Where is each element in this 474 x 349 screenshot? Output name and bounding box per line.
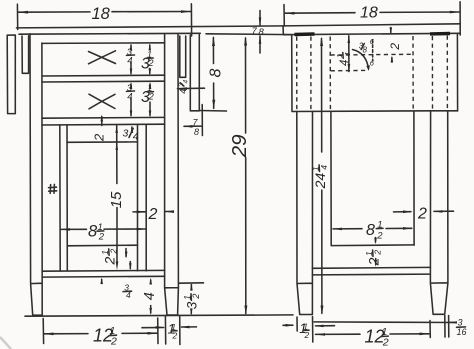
dim 8 right side: [212, 37, 214, 108]
drawer 1 X mark: [89, 51, 116, 64]
svg-text:2: 2: [191, 294, 201, 300]
right leg: [165, 34, 179, 315]
right edge extension up: [459, 2, 461, 35]
short dashed vertical in detail: [372, 40, 374, 61]
svg-text:4: 4: [339, 60, 351, 66]
svg-text:4: 4: [319, 165, 329, 170]
left leaf support bar: [22, 36, 29, 74]
drawer row2 dim 3/4: [130, 84, 132, 116]
dim line + outward arrows: [44, 332, 157, 335]
dim 18 top left: extension lines: [17, 4, 191, 36]
dim 29 overall height: [245, 38, 247, 314]
svg-text:2: 2: [365, 257, 381, 266]
leader arc: [353, 50, 369, 70]
floor extension line left: [25, 315, 293, 316]
drawer row1 dim 3/4: [130, 45, 132, 74]
right leg below case: [430, 111, 448, 314]
grain hash mark on left stile: [49, 184, 57, 193]
dim 24 1/4 (rotated): [321, 39, 323, 314]
bottom band: [312, 267, 430, 275]
floor extension line right: [314, 321, 456, 324]
dim 7/8 tabletop thickness: [259, 11, 261, 54]
svg-text:3: 3: [123, 128, 129, 140]
svg-text:16: 16: [457, 327, 467, 337]
svg-text:2: 2: [382, 337, 389, 349]
drawer row2 dim 3 1/2: [149, 84, 151, 116]
svg-text:24: 24: [312, 173, 328, 190]
door top rail bottom: [67, 141, 138, 143]
dim 3/4 of band under drawer2 (horizontal fraction, below band): [131, 127, 133, 130]
hidden leg + guide lines (dashed): [296, 37, 298, 111]
svg-text:2: 2: [148, 58, 154, 68]
dim 4 3/4 small (rotated): [178, 80, 190, 94]
case sides + bottom: [292, 33, 458, 111]
svg-text:2: 2: [376, 231, 383, 242]
small up arrow under band left: [101, 280, 103, 284]
dim 8 1/2 across door panel: [61, 228, 145, 230]
svg-text:2: 2: [417, 206, 427, 223]
svg-text:2: 2: [148, 206, 158, 223]
svg-text:4: 4: [133, 131, 139, 143]
svg-text:8: 8: [208, 69, 225, 78]
dim 4 (rotated) lower right: [150, 280, 152, 313]
dim 7/8 lower right of bars: [201, 105, 203, 136]
svg-text:18: 18: [92, 5, 111, 23]
svg-text:2: 2: [172, 331, 178, 341]
dim 18 line + arrows: [18, 11, 191, 14]
dim line for 4 3/4: [178, 87, 205, 89]
svg-text:2: 2: [148, 92, 154, 102]
svg-text:18: 18: [360, 5, 378, 22]
extension at leaf bottom: [200, 110, 227, 113]
svg-text:4: 4: [127, 92, 132, 103]
drawer row1 dim 3 1/2: [149, 45, 151, 74]
svg-text:2: 2: [109, 249, 119, 255]
dim 3/16 leg taper: [445, 316, 449, 338]
dim 18 top right: [283, 5, 285, 26]
svg-text:2: 2: [92, 133, 107, 142]
rail band under drawer 1: [42, 75, 165, 82]
door stiles: [60, 125, 146, 271]
hidden guide rails (dashed horizontals): [331, 53, 413, 56]
dim 8 1/2 lower panel: [333, 227, 412, 230]
dim 2 below top (rotated): [391, 28, 392, 63]
door bottom rail top: [67, 244, 137, 247]
svg-text:4: 4: [127, 56, 132, 67]
svg-text:2: 2: [372, 250, 382, 256]
svg-text:2: 2: [304, 330, 310, 340]
dim 12 1/2 bottom right view: [429, 321, 431, 338]
svg-text:7: 7: [252, 26, 258, 37]
tabletop bottom edge: [19, 32, 200, 35]
dim 1 1/2 bottom left of right view: [297, 317, 313, 343]
svg-text:8: 8: [363, 46, 368, 55]
svg-text:2: 2: [388, 43, 402, 51]
svg-text:2: 2: [102, 257, 118, 266]
dim 2 1/2 (rotated): [375, 238, 377, 243]
svg-text:3: 3: [184, 301, 199, 309]
side panel verticals: [331, 111, 414, 245]
rail band under drawer 2: [42, 117, 165, 125]
tabletop top edge + extension to 29 dim: [17, 26, 286, 28]
thick cleat marks under top: [295, 34, 451, 35]
svg-text:4: 4: [142, 292, 158, 300]
tabletop: [283, 24, 460, 35]
svg-text:4: 4: [343, 52, 352, 56]
svg-text:8: 8: [194, 127, 199, 137]
left leg: [30, 34, 42, 315]
top rail bottom line: [42, 42, 165, 45]
svg-text:2: 2: [110, 336, 117, 348]
drawer 2 X mark: [89, 94, 115, 109]
dim 4 1/4 drawer guide detail (rotated): [348, 36, 350, 72]
mystery small up arrow above band2 center: [101, 117, 103, 126]
left drop leaf: [7, 35, 15, 114]
svg-text:2: 2: [98, 232, 105, 243]
scan smudge bottom-left corner: [0, 337, 11, 349]
bottom band: [42, 270, 164, 277]
tabletop bottom extension line: [206, 33, 291, 36]
dim 3 1/2 right of right leg: [179, 282, 204, 284]
dim 2 1/2 door bottom rail (rotated): [100, 249, 119, 266]
left leg below case: [297, 111, 313, 314]
svg-text:8: 8: [259, 27, 265, 38]
side panel bottom rail: [331, 244, 414, 247]
dim 12 1/2 bottom: extensions: [43, 318, 158, 344]
svg-text:15: 15: [108, 191, 125, 208]
svg-text:29: 29: [228, 134, 251, 158]
right drop leaf: [190, 35, 199, 111]
dim 1 1/2 bottom right of left view: [165, 317, 180, 345]
svg-text:8: 8: [366, 222, 375, 239]
svg-text:3: 3: [458, 318, 463, 328]
svg-text:4: 4: [126, 290, 131, 300]
svg-text:4: 4: [183, 80, 190, 84]
right leaf support bar: [180, 36, 186, 77]
